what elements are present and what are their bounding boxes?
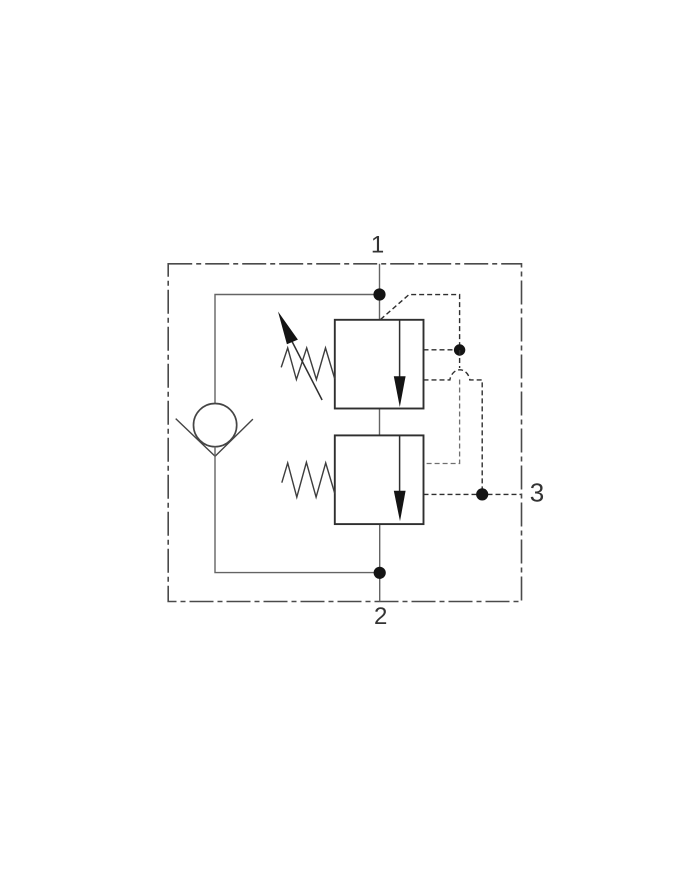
flow arrow in V1 xyxy=(399,320,401,378)
wire between valve stages xyxy=(379,409,381,436)
pilot line port1 to pilot node xyxy=(381,295,460,346)
svg-text:2: 2 xyxy=(374,603,387,630)
node at port 3 junction xyxy=(476,488,488,500)
svg-text:1: 1 xyxy=(371,232,384,259)
adjustable spring of V1 xyxy=(281,348,335,380)
svg-text:3: 3 xyxy=(530,478,544,508)
sequence stage box V2 xyxy=(335,435,424,524)
pilot line V1 right to pilot node xyxy=(424,349,460,351)
pilot drain line from V1 with hop over xyxy=(424,370,483,489)
pilot line to port 3 xyxy=(424,493,521,495)
wire from check valve to node 2 xyxy=(215,447,380,573)
check valve CV1 ball xyxy=(194,404,237,447)
node at port 1 junction xyxy=(373,288,385,300)
flow arrow in V2 xyxy=(399,436,401,493)
enclosure border (dash-dot envelope) xyxy=(168,264,521,602)
spring of V2 xyxy=(282,462,335,497)
wire from node 1 to check valve xyxy=(215,295,380,404)
gray pilot line to V2 top xyxy=(424,380,460,464)
adjustment arrow xyxy=(291,339,323,401)
port 2 wire xyxy=(379,524,381,601)
port 1 wire xyxy=(379,264,381,320)
node at port 2 junction xyxy=(374,567,386,579)
check valve seat xyxy=(176,419,215,457)
relief stage box V1 xyxy=(335,320,424,409)
pilot node xyxy=(454,344,465,355)
pilot line node down to hop xyxy=(459,350,461,368)
